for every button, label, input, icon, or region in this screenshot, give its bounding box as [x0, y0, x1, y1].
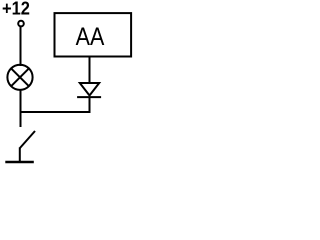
- svg-text:AA: AA: [76, 22, 105, 50]
- svg-text:+12: +12: [2, 0, 30, 19]
